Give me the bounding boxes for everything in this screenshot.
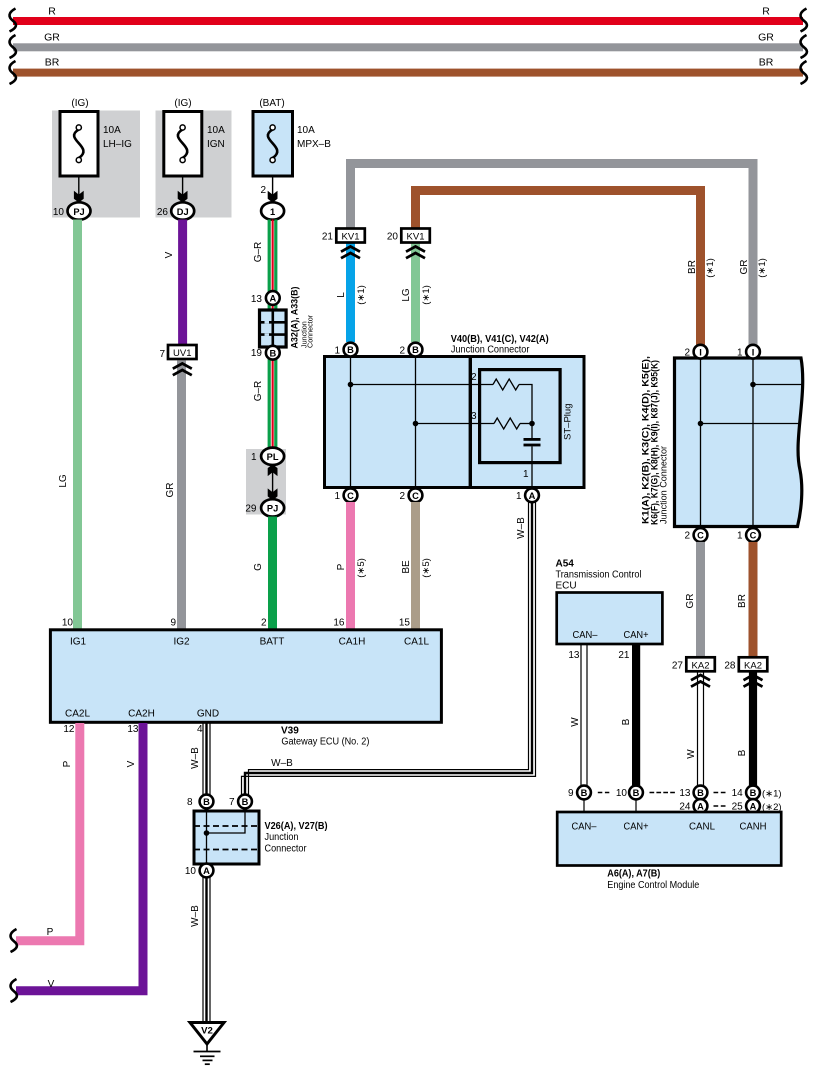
svg-text:B: B: [347, 345, 354, 355]
svg-text:V39: V39: [281, 726, 299, 737]
wire W from KA2 27 to ECM 13B: [686, 672, 704, 786]
svg-text:1: 1: [251, 452, 257, 463]
ECU A6(A) A7(B) Engine Control Module: [557, 812, 781, 891]
svg-text:2: 2: [684, 531, 690, 542]
svg-text:V26(A), V27(B): V26(A), V27(B): [265, 821, 328, 832]
connector pin 10 B on ECM: [616, 786, 643, 800]
svg-text:15: 15: [399, 618, 411, 629]
svg-text:9: 9: [170, 618, 176, 629]
svg-text:C: C: [347, 491, 354, 501]
capacitor C1: [524, 438, 541, 446]
svg-text:LG: LG: [58, 474, 69, 488]
connector 21 KV1: [322, 229, 365, 259]
connector pin 10 A on V26: [185, 864, 214, 878]
connector 27 KA2: [672, 657, 715, 686]
svg-text:L: L: [336, 292, 347, 298]
svg-text:A: A: [750, 802, 757, 812]
harness cut squiggle left R: [10, 9, 16, 32]
svg-text:1: 1: [737, 347, 743, 358]
svg-text:10: 10: [53, 207, 65, 218]
wire R bus: [13, 6, 803, 26]
svg-text:GND: GND: [197, 709, 219, 720]
svg-text:IG1: IG1: [70, 636, 87, 647]
svg-text:1: 1: [334, 345, 340, 356]
svg-text:20: 20: [387, 232, 399, 243]
svg-text:(IG): (IG): [174, 98, 191, 109]
svg-text:W: W: [686, 749, 697, 759]
svg-text:B: B: [269, 348, 276, 358]
svg-text:2: 2: [399, 491, 405, 502]
fuse F3 10A MPX-B: [253, 98, 331, 176]
svg-text:BR: BR: [687, 260, 698, 274]
svg-text:G–R: G–R: [253, 381, 264, 402]
svg-text:Transmission Control: Transmission Control: [556, 570, 642, 581]
node junction on 1B wire: [348, 382, 354, 388]
wire LG from PJ to IG1: [58, 220, 82, 631]
svg-text:(∗1): (∗1): [356, 285, 367, 305]
connector pin 2 C on K: [684, 528, 707, 542]
svg-text:3: 3: [471, 411, 477, 422]
harness cut squiggle left GR: [10, 35, 16, 58]
wire GR from UV1 to IG2: [165, 361, 186, 631]
resistor R2 in ST-Plug: [494, 418, 520, 429]
svg-text:12: 12: [63, 724, 75, 735]
svg-text:Connector: Connector: [306, 314, 315, 348]
svg-text:V: V: [48, 979, 55, 990]
connector pin 13 B on ECM: [679, 786, 707, 800]
wire inside V26 8B to 10A: [206, 811, 208, 864]
svg-text:KA2: KA2: [744, 660, 762, 671]
harness cut squiggle right R: [801, 9, 807, 32]
wire W from A54 pin 13 to ECM 9B: [568, 644, 587, 786]
svg-text:27: 27: [672, 661, 684, 672]
wire W-B from V40 1A to V26 7B: [242, 502, 536, 795]
arrow fuse F3 pin 2 to connector 1: [260, 176, 277, 203]
connector pin 9 B on ECM: [568, 786, 591, 800]
svg-text:GR: GR: [739, 260, 750, 275]
wire inside V40 pin 1B to 1C: [350, 357, 352, 488]
svg-text:BR: BR: [759, 57, 774, 69]
svg-text:1: 1: [737, 531, 743, 542]
svg-text:I: I: [699, 347, 702, 357]
wire inside K 2I to 2C: [700, 358, 702, 527]
wire LG from KV1 20 to V40 2(B): [401, 244, 432, 343]
svg-text:BATT: BATT: [260, 636, 285, 647]
svg-text:(∗5): (∗5): [356, 558, 367, 578]
wire V from DJ to UV1: [164, 220, 187, 346]
fuse F2 10A IGN: [164, 98, 225, 176]
node junction on 2I wire: [698, 421, 704, 427]
connector pin 19 B of A32: [251, 346, 280, 360]
svg-text:CA2H: CA2H: [128, 709, 155, 720]
svg-text:P: P: [336, 563, 347, 570]
svg-text:A: A: [697, 802, 704, 812]
svg-text:Junction: Junction: [265, 832, 299, 843]
connector pin 2 B on V40: [399, 343, 422, 357]
svg-text:KV1: KV1: [342, 232, 360, 243]
harness cut squiggle right BR: [801, 61, 807, 84]
svg-text:CA2L: CA2L: [65, 709, 90, 720]
svg-text:P: P: [62, 760, 73, 767]
svg-text:C: C: [750, 531, 757, 541]
svg-text:1: 1: [334, 491, 340, 502]
wire stub from 2I node to edge: [701, 423, 801, 425]
fuse F1 10A LH-IG: [60, 98, 132, 176]
svg-text:A: A: [529, 491, 536, 501]
svg-text:A54: A54: [556, 559, 575, 570]
svg-text:BR: BR: [737, 594, 748, 608]
svg-text:CAN–: CAN–: [572, 822, 597, 833]
svg-text:1: 1: [270, 207, 275, 217]
svg-text:13: 13: [679, 788, 691, 799]
svg-text:13: 13: [127, 724, 139, 735]
wire BR overhead from KV1 20 to K connector 2(I): [416, 191, 701, 347]
svg-text:B: B: [581, 788, 588, 798]
svg-text:A: A: [269, 294, 276, 304]
svg-text:KV1: KV1: [407, 232, 425, 243]
svg-text:2: 2: [399, 345, 405, 356]
svg-text:G–R: G–R: [253, 242, 264, 263]
wire resistor R1 to cap node: [519, 385, 532, 439]
connector pin 7 B on V26: [229, 795, 252, 809]
svg-text:Connector: Connector: [265, 844, 308, 855]
dashes 24A to 25A: [714, 805, 726, 807]
svg-text:GR: GR: [685, 594, 696, 609]
svg-text:R: R: [762, 6, 770, 18]
wire L from KV1 21 to V40 1(B): [336, 244, 367, 343]
ECU V39 Gateway: [50, 630, 441, 748]
wire W-B from V26 10A to ground: [190, 877, 210, 1021]
svg-text:PJ: PJ: [73, 207, 84, 217]
connector pin 8 B on V26: [187, 795, 213, 809]
svg-text:B: B: [203, 797, 210, 807]
svg-text:GR: GR: [758, 32, 774, 44]
svg-text:B: B: [621, 718, 632, 725]
dashes 10B to 13B: [650, 792, 676, 794]
svg-text:(∗1): (∗1): [757, 258, 768, 278]
svg-text:V: V: [164, 251, 175, 258]
svg-text:10: 10: [62, 618, 74, 629]
svg-text:BE: BE: [401, 560, 412, 574]
svg-text:PL: PL: [267, 452, 279, 462]
wire B from A54 pin 21 to ECM 10B: [618, 644, 640, 786]
svg-text:CAN+: CAN+: [624, 630, 649, 641]
connector pin 14 B on ECM: [732, 786, 782, 800]
svg-text:(∗5): (∗5): [421, 558, 432, 578]
instrument panel wire shade PL-PJ: [246, 449, 286, 515]
svg-text:W–B: W–B: [271, 758, 293, 769]
wire GR bus: [13, 32, 803, 52]
ST-Plug box: [471, 370, 574, 480]
junction connector K1-K95: [641, 356, 803, 527]
svg-text:8: 8: [187, 797, 193, 808]
svg-text:CANL: CANL: [689, 822, 715, 833]
wire V from CA2H to tail: [16, 723, 143, 991]
connector pin 10 PJ: [53, 202, 91, 219]
svg-text:2: 2: [684, 347, 690, 358]
svg-text:13: 13: [568, 650, 580, 661]
connector pin 1 PL: [251, 448, 284, 465]
svg-text:2: 2: [261, 618, 267, 629]
svg-text:A: A: [203, 866, 210, 876]
svg-text:W–B: W–B: [190, 905, 201, 927]
wire G-R fuse F3 down through A32 to PL: [253, 220, 277, 449]
svg-text:1: 1: [516, 491, 522, 502]
svg-text:CA1L: CA1L: [404, 636, 429, 647]
svg-text:21: 21: [618, 650, 630, 661]
harness cut squiggle wire P: [11, 929, 17, 952]
arrow fuse F1 to connector PJ: [74, 176, 84, 203]
svg-text:W: W: [570, 717, 581, 727]
wire to ST-Plug pin 3: [416, 423, 495, 425]
arrow fuse F2 to connector DJ: [178, 176, 188, 203]
junction connector V40(B) V41(C) V42(A): [325, 334, 585, 488]
junction connector A32(A) A33(B): [260, 287, 315, 349]
wire B from KA2 28 to ECM 14B: [737, 672, 757, 786]
svg-text:21: 21: [322, 232, 334, 243]
dashes 9B to 10B: [598, 792, 610, 794]
connector pin 24 A on ECM: [679, 799, 707, 813]
connector 20 KV1: [387, 229, 430, 259]
svg-text:B: B: [697, 788, 704, 798]
svg-text:C: C: [697, 531, 704, 541]
connector pin 2 C on V40: [399, 488, 422, 502]
svg-text:A6(A), A7(B): A6(A), A7(B): [607, 869, 660, 880]
svg-text:Gateway ECU (No. 2): Gateway ECU (No. 2): [281, 737, 369, 748]
connector pin 1 A on V40: [516, 488, 539, 502]
svg-text:IGN: IGN: [207, 139, 225, 150]
connector pin 1 C on K: [737, 528, 760, 542]
double arrow between PL and PJ: [268, 464, 278, 500]
svg-text:BR: BR: [45, 57, 60, 69]
svg-text:10A: 10A: [103, 125, 121, 136]
svg-text:KA2: KA2: [692, 660, 710, 671]
svg-text:4: 4: [197, 724, 203, 735]
svg-text:14: 14: [732, 788, 744, 799]
svg-text:MPX–B: MPX–B: [297, 139, 331, 150]
svg-text:B: B: [737, 749, 748, 756]
svg-text:B: B: [750, 788, 757, 798]
wire G from PJ to BATT: [253, 517, 277, 631]
svg-text:B: B: [242, 797, 249, 807]
connector pin 1 I on K: [737, 345, 760, 359]
wire GR label above K pin 1I: [739, 258, 768, 278]
svg-text:UV1: UV1: [173, 348, 191, 359]
wire GR from K 2C to KA2 27: [685, 542, 705, 657]
svg-text:G: G: [253, 563, 264, 571]
svg-text:26: 26: [157, 207, 169, 218]
wire stubs pins to ECM box: [584, 799, 636, 812]
svg-text:B: B: [633, 788, 640, 798]
svg-text:LG: LG: [401, 288, 412, 302]
wire resistor R2 to node: [520, 423, 532, 425]
svg-text:7: 7: [159, 349, 165, 360]
ECU A54 Transmission Control: [556, 559, 663, 645]
svg-text:9: 9: [568, 788, 574, 799]
node junction on 2B wire: [413, 421, 419, 427]
svg-text:10A: 10A: [207, 125, 225, 136]
junction connector V26(A) V27(B): [194, 811, 328, 864]
svg-text:7: 7: [229, 797, 235, 808]
svg-text:CA1H: CA1H: [339, 636, 366, 647]
wire P from CA2L to tail: [16, 723, 80, 941]
ground symbol: [194, 1044, 221, 1064]
svg-text:16: 16: [333, 618, 345, 629]
svg-text:Engine Control Module: Engine Control Module: [607, 880, 699, 891]
wire BE from V40 2C to CA1L: [401, 502, 432, 630]
svg-text:W–B: W–B: [516, 517, 527, 539]
harness cut squiggle left BR: [10, 61, 16, 84]
svg-text:LH–IG: LH–IG: [103, 139, 132, 150]
node junction at capacitor: [529, 421, 535, 427]
svg-text:CAN+: CAN+: [624, 822, 649, 833]
node junction in V26: [204, 830, 210, 836]
wire inside V26 7B elbow to 8B wire: [207, 811, 246, 833]
svg-text:ECU: ECU: [556, 581, 577, 592]
svg-text:10: 10: [616, 788, 628, 799]
svg-text:29: 29: [245, 504, 257, 515]
wire to ST-Plug pin 2: [351, 384, 494, 386]
wire BR bus: [13, 57, 803, 77]
svg-text:2: 2: [471, 372, 477, 383]
connector pin 13 A of A32: [251, 291, 280, 305]
svg-text:PJ: PJ: [267, 504, 278, 514]
svg-text:(∗1): (∗1): [421, 285, 432, 305]
connector pin 25 A on ECM: [732, 799, 782, 813]
connector pin 26 DJ: [157, 202, 194, 219]
svg-text:B: B: [412, 345, 419, 355]
svg-text:19: 19: [251, 348, 263, 359]
svg-text:(∗1): (∗1): [705, 258, 716, 278]
fuse block shade IGN: [156, 111, 232, 218]
harness cut squiggle wire V: [11, 979, 17, 1002]
svg-text:GR: GR: [44, 32, 60, 44]
svg-text:10A: 10A: [297, 125, 315, 136]
svg-text:R: R: [48, 6, 56, 18]
svg-text:P: P: [47, 927, 54, 938]
connector 7 UV1: [159, 345, 196, 375]
svg-text:10: 10: [185, 866, 197, 877]
connector 28 KA2: [724, 657, 767, 686]
ground point V2: [190, 1023, 224, 1045]
wire W-B from GND to V26 8B: [190, 723, 210, 795]
svg-text:V2: V2: [201, 1026, 213, 1037]
svg-text:28: 28: [724, 661, 736, 672]
svg-text:DJ: DJ: [177, 207, 189, 217]
wire P from V40 1C to CA1H: [336, 502, 367, 630]
svg-text:Junction Connector: Junction Connector: [451, 345, 530, 356]
node junction on 1I wire: [750, 382, 756, 388]
svg-text:I: I: [752, 347, 755, 357]
wire BR label above K pin 2I: [687, 258, 716, 278]
svg-text:(BAT): (BAT): [259, 98, 284, 109]
fuse block shade LH-IG: [52, 111, 140, 218]
wire stub from 1I node to edge: [753, 384, 802, 386]
svg-text:GR: GR: [165, 483, 176, 498]
wire inside V40 pin 2B to 2C: [415, 357, 417, 488]
svg-text:V: V: [126, 760, 137, 767]
svg-text:C: C: [412, 491, 419, 501]
connector pin 2 I on K: [684, 345, 707, 359]
connector pin 1: [261, 202, 284, 219]
svg-text:(∗1): (∗1): [762, 789, 782, 800]
resistor R1 in ST-Plug: [493, 379, 519, 390]
svg-text:(IG): (IG): [71, 98, 88, 109]
connector pin 1 C on V40: [334, 488, 357, 502]
svg-text:1: 1: [523, 469, 529, 480]
svg-text:13: 13: [251, 294, 263, 305]
wire GR overhead from KV1 21 to K connector 1(I): [351, 164, 754, 347]
svg-text:CAN–: CAN–: [573, 630, 598, 641]
svg-text:ST–Plug: ST–Plug: [563, 404, 574, 441]
wire capacitor to pin 1A: [531, 446, 533, 489]
svg-text:CANH: CANH: [740, 822, 767, 833]
harness cut squiggle right GR: [801, 35, 807, 58]
dashes 13B to 14B: [714, 792, 726, 794]
svg-text:V40(B), V41(C), V42(A): V40(B), V41(C), V42(A): [451, 334, 549, 345]
wire inside K 1I to 1C: [752, 358, 754, 527]
svg-text:IG2: IG2: [173, 636, 190, 647]
connector pin 1 B on V40: [334, 343, 357, 357]
connector pin 29 PJ: [245, 499, 284, 516]
svg-text:W–B: W–B: [190, 747, 201, 769]
svg-text:2: 2: [260, 185, 266, 196]
svg-text:Junction Connector: Junction Connector: [659, 446, 669, 524]
wire BR from K 1C to KA2 28: [737, 542, 758, 657]
